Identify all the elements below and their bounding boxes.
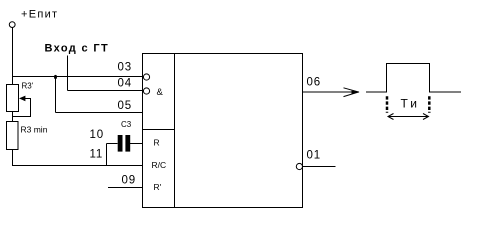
pulse width double arrow <box>388 114 429 120</box>
pin 03 inversion bubble <box>143 74 149 80</box>
wire from Вход с ГТ down <box>67 56 69 91</box>
wire from C3 right plate to R input <box>130 143 142 145</box>
svg-text:Вход с ГТ: Вход с ГТ <box>45 43 110 55</box>
wire into C3 left plate <box>107 143 118 145</box>
node junction on 03 line <box>54 75 57 79</box>
pin 01 inversion bubble <box>296 163 302 169</box>
svg-text:03: 03 <box>118 62 132 74</box>
svg-text:09: 09 <box>122 175 136 187</box>
wire pin 03 line <box>13 76 144 78</box>
svg-text:10: 10 <box>90 129 104 141</box>
dashed line left edge of pulse width <box>386 96 389 113</box>
wire from R3 min down and right to pin 11 <box>13 150 143 166</box>
IC left column divider <box>143 129 175 131</box>
wire from +Епит terminal down to R3' <box>12 28 14 85</box>
pin 04 inversion bubble <box>143 88 149 94</box>
svg-text:R/C: R/C <box>152 160 167 170</box>
wire branch up from 11 line to C3 <box>106 144 108 166</box>
svg-text:05: 05 <box>118 100 132 112</box>
resistor R3' <box>7 85 19 112</box>
svg-text:+Епит: +Епит <box>21 9 58 21</box>
resistor R3 min <box>7 122 19 150</box>
svg-text:11: 11 <box>90 149 104 161</box>
pulse waveform symbol <box>366 64 461 93</box>
svg-text:&: & <box>157 87 164 98</box>
svg-text:R3 min: R3 min <box>21 125 48 135</box>
svg-text:Ти: Ти <box>401 97 421 111</box>
svg-text:R': R' <box>154 182 162 192</box>
capacitor C3 <box>118 135 131 152</box>
svg-text:01: 01 <box>307 150 321 162</box>
wire pin 06 output line <box>303 91 360 93</box>
wire pin 09 line <box>108 187 143 189</box>
svg-text:R3': R3' <box>22 82 34 91</box>
wire pin 04 line <box>68 90 144 92</box>
wire pin 05 line <box>56 112 143 114</box>
IC internal divider <box>174 54 176 208</box>
wiper arrow of R3' <box>13 96 31 117</box>
IC block U1 outline <box>143 54 303 208</box>
svg-text:C3: C3 <box>121 120 132 129</box>
svg-text:06: 06 <box>307 77 321 89</box>
arrowhead on 06 output <box>344 88 360 97</box>
svg-text:R: R <box>154 138 160 148</box>
wire between R3' and R3 min <box>12 112 14 122</box>
dashed line right edge of pulse width <box>428 96 431 113</box>
svg-text:04: 04 <box>118 78 132 90</box>
power terminal +Епит <box>9 9 58 28</box>
wire branch from 03 line down to 05 line <box>55 77 57 113</box>
wire pin 01 line <box>303 166 336 168</box>
